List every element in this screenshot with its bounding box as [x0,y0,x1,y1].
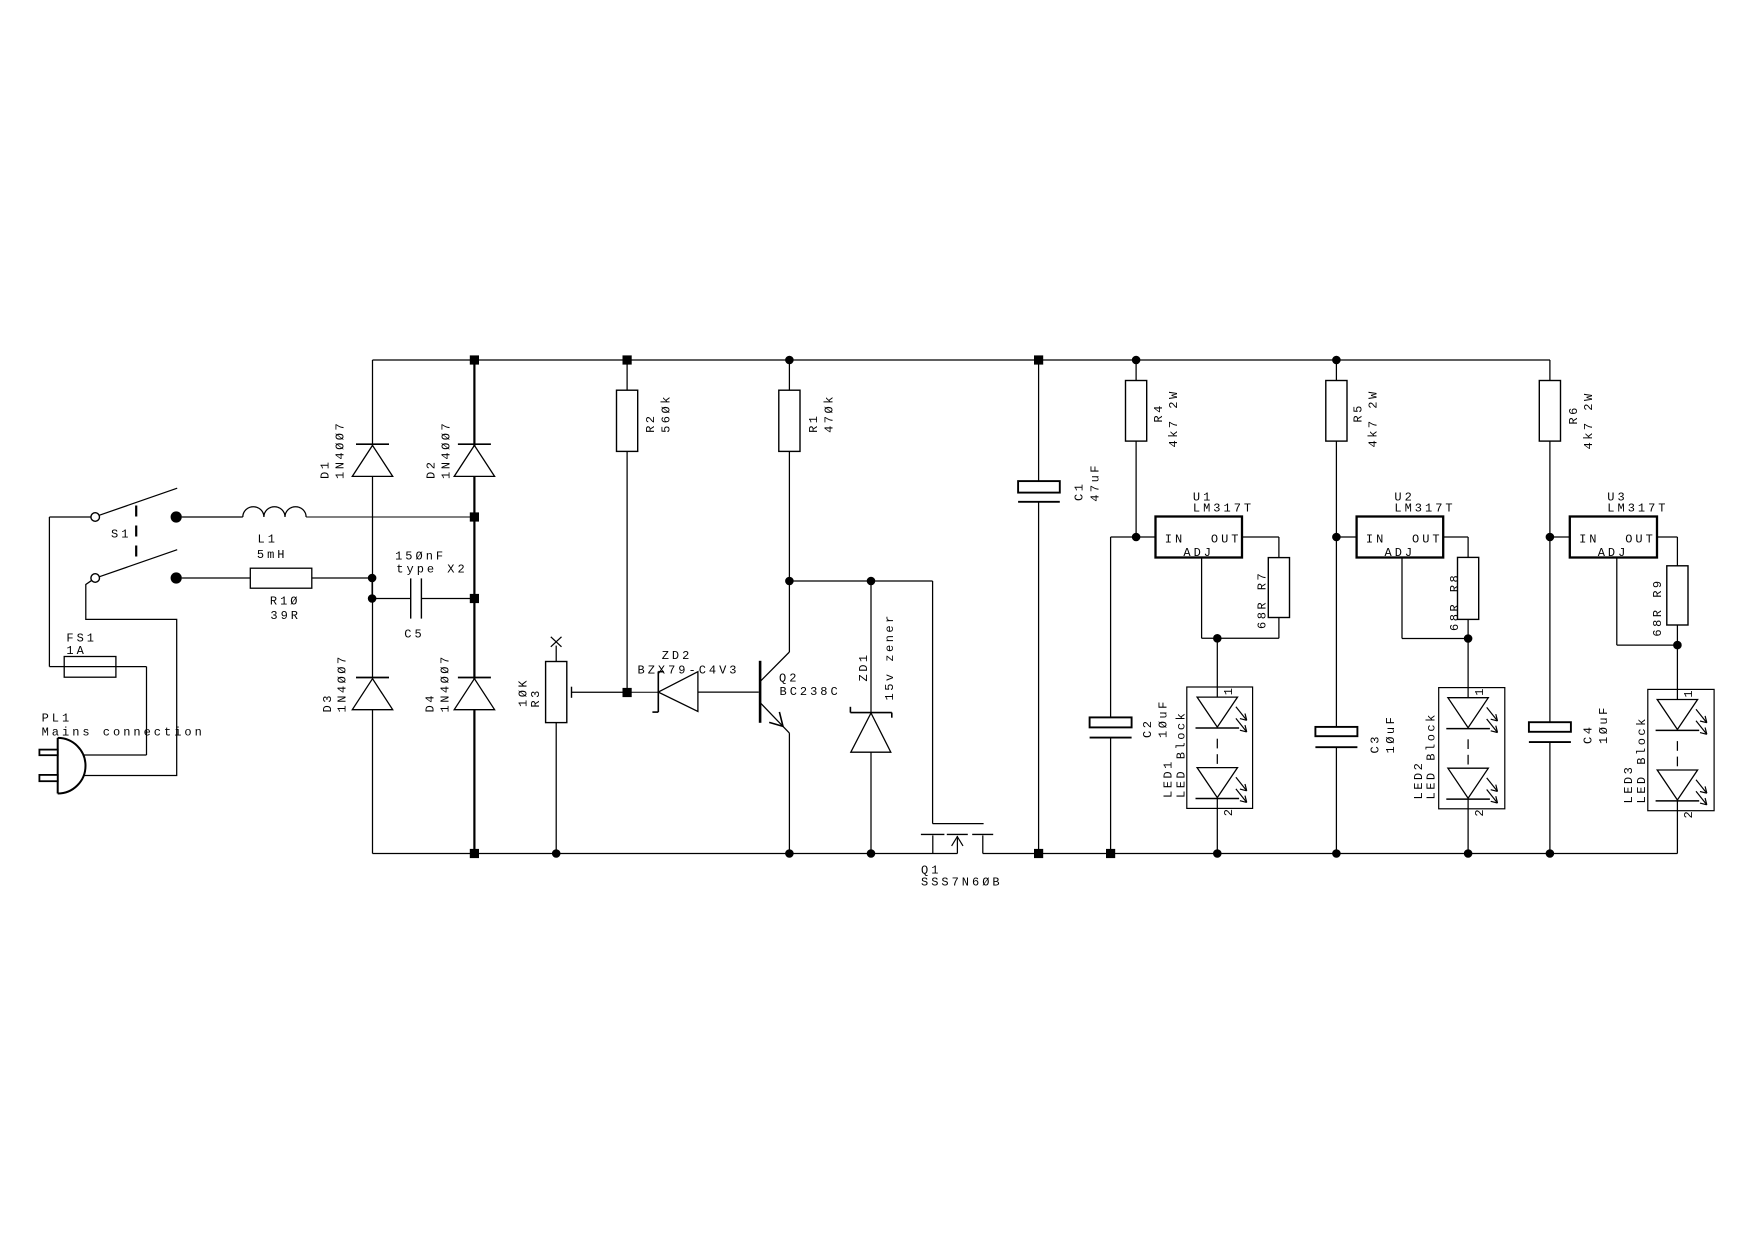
svg-text:D3: D3 [321,693,335,712]
svg-text:1N4ØØ7: 1N4ØØ7 [335,654,349,712]
svg-text:15ØnF: 15ØnF [395,550,446,564]
svg-text:Q2: Q2 [779,672,799,686]
svg-text:1: 1 [1473,686,1487,696]
svg-text:R6: R6 [1567,405,1581,424]
svg-text:1ØuF: 1ØuF [1156,699,1170,738]
svg-text:1N4ØØ7: 1N4ØØ7 [440,421,454,479]
svg-text:SSS7N6ØB: SSS7N6ØB [921,876,1003,890]
svg-text:IN: IN [1579,533,1599,547]
svg-text:C2: C2 [1141,719,1155,738]
svg-text:ZD2: ZD2 [662,649,693,663]
svg-text:2: 2 [1473,807,1487,817]
svg-text:4k7 2W: 4k7 2W [1582,391,1596,449]
svg-text:D4: D4 [423,693,437,712]
svg-text:D1: D1 [318,460,332,479]
svg-text:56Øk: 56Øk [659,394,673,433]
svg-text:C3: C3 [1369,734,1383,753]
svg-text:LM317T: LM317T [1394,502,1455,516]
svg-text:C4: C4 [1582,725,1596,744]
svg-text:68R R9: 68R R9 [1651,578,1665,636]
svg-text:1N4ØØ7: 1N4ØØ7 [333,421,347,479]
svg-text:68R R8: 68R R8 [1448,573,1462,631]
svg-text:47uF: 47uF [1088,463,1102,502]
svg-text:1ØuF: 1ØuF [1597,705,1611,744]
svg-text:R1: R1 [807,413,821,432]
svg-text:LED Block: LED Block [1425,712,1439,799]
svg-text:R3: R3 [529,688,543,707]
svg-text:4k7 2W: 4k7 2W [1167,389,1181,447]
svg-text:BC238C: BC238C [780,685,841,699]
svg-text:39R: 39R [270,609,301,623]
svg-text:68R R7: 68R R7 [1256,571,1270,629]
svg-text:OUT: OUT [1625,533,1656,547]
svg-text:IN: IN [1366,533,1386,547]
svg-text:R5: R5 [1352,403,1366,422]
svg-text:R2: R2 [644,413,658,432]
svg-text:ADJ: ADJ [1598,546,1629,560]
svg-text:R4: R4 [1152,403,1166,422]
svg-text:1: 1 [1682,688,1696,698]
svg-text:4k7 2W: 4k7 2W [1367,389,1381,447]
svg-text:ADJ: ADJ [1183,546,1214,560]
svg-text:LED Block: LED Block [1174,711,1188,798]
svg-text:OUT: OUT [1412,533,1443,547]
svg-text:1A: 1A [66,644,86,658]
svg-text:Mains connection: Mains connection [42,726,205,740]
svg-text:L1: L1 [258,533,278,547]
svg-text:OUT: OUT [1211,533,1242,547]
svg-text:IN: IN [1165,533,1185,547]
svg-text:C1: C1 [1072,482,1086,501]
svg-text:ZD1: ZD1 [857,652,871,681]
svg-text:R1Ø: R1Ø [270,595,301,609]
svg-text:5mH: 5mH [257,548,288,562]
svg-text:BZX79-C4V3: BZX79-C4V3 [638,664,740,678]
svg-text:1ØuF: 1ØuF [1384,715,1398,754]
svg-text:47Øk: 47Øk [822,394,836,433]
svg-text:LM317T: LM317T [1607,502,1668,516]
svg-text:D2: D2 [425,460,439,479]
svg-text:ADJ: ADJ [1385,546,1416,560]
svg-text:type X2: type X2 [396,563,467,577]
svg-text:C5: C5 [404,628,424,642]
svg-text:S1: S1 [111,528,131,542]
svg-text:2: 2 [1682,809,1696,819]
svg-text:LED Block: LED Block [1635,716,1649,803]
svg-text:1: 1 [1222,685,1236,695]
svg-text:PL1: PL1 [42,712,73,726]
svg-text:2: 2 [1222,806,1236,816]
svg-text:15v zener: 15v zener [883,613,897,700]
svg-text:LM317T: LM317T [1193,502,1254,516]
svg-text:1N4ØØ7: 1N4ØØ7 [438,654,452,712]
